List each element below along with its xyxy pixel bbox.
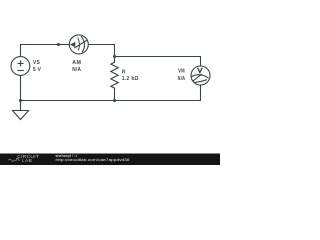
voltmeter letter V (drawn as path) <box>198 68 203 73</box>
wire source bottom stem <box>20 75 22 100</box>
svg-text:VS: VS <box>33 60 41 66</box>
svg-text:N/A: N/A <box>178 76 186 82</box>
wire node to ammeter left terminal <box>59 44 70 46</box>
voltmeter VM gauge lower arc <box>194 80 207 83</box>
watermark bar <box>0 154 220 166</box>
svg-text:R: R <box>122 70 126 76</box>
wire ammeter right terminal to corner and down to resistor top node <box>88 45 114 57</box>
svg-text:AM: AM <box>72 60 81 66</box>
voltmeter VM circle <box>191 66 210 85</box>
wire bottom rail left <box>21 100 115 102</box>
svg-text:VM: VM <box>178 68 185 74</box>
wire top rail to voltmeter <box>115 57 201 67</box>
svg-text:http://circuitlab.com/cae7appd: http://circuitlab.com/cae7appdvd36 <box>56 158 130 162</box>
node dot at (58,44) <box>57 43 60 46</box>
resistor R zigzag <box>111 57 118 101</box>
svg-text:1.2 kΩ: 1.2 kΩ <box>122 76 139 82</box>
ground <box>13 101 29 120</box>
svg-text:LAB: LAB <box>22 158 33 164</box>
svg-text:5 V: 5 V <box>33 67 42 73</box>
ammeter letter A (rotated, drawn as path) <box>70 42 75 46</box>
voltage source VS circle <box>11 57 30 76</box>
node dot resistor bottom (115,100) <box>113 99 116 102</box>
voltmeter VM needle <box>193 74 202 81</box>
VS plus sign <box>18 60 24 66</box>
wire voltmeter bottom to bottom rail <box>115 85 201 101</box>
ammeter AM needle <box>74 40 87 48</box>
voltmeter VM gauge arch <box>191 75 209 78</box>
wire top-left: source top to node <box>21 45 59 57</box>
ammeter AM gauge outer arc <box>81 36 84 52</box>
CircuitLab logo text <box>9 154 130 164</box>
node dot ground junction (20,100) <box>19 99 22 102</box>
ammeter AM gauge inner arc <box>78 38 80 51</box>
node dot resistor top (115,56) <box>113 55 116 58</box>
ammeter AM circle <box>69 35 88 54</box>
svg-text:N/A: N/A <box>72 67 81 73</box>
VS minus sign <box>17 70 23 72</box>
